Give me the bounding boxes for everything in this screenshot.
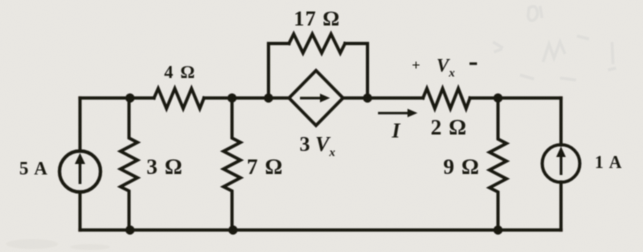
faint bottom-left smudge [6,239,110,250]
resistor R 3 ohm branch [121,98,138,230]
junction node top of 9-ohm [493,93,502,102]
wire right branch lower [559,182,562,230]
junction node bottom of 7-ohm [228,225,237,234]
wire left branch lower [78,192,81,230]
dependent source 3Vx diamond [289,71,343,126]
wire lead from dependent source right [343,96,368,99]
arrow inside dependent source [300,94,330,103]
wire top rail (node C to 2-ohm) [368,96,423,99]
wire 17-ohm loop left riser [269,44,290,99]
junction node top of 7-ohm [227,93,236,102]
junction node bottom of 3-ohm [125,225,134,234]
current arrow I [378,109,418,118]
resistor R 2 ohm [423,89,470,109]
faint scan ghost marks top right [493,6,616,80]
resistor R 17 ohm [289,34,345,53]
junction node dependent source right [363,93,372,102]
resistor R 9 ohm branch [490,98,507,230]
resistor R 7 ohm branch [224,98,241,230]
arrow inside 1A source [556,147,566,176]
current source 5A circle [60,151,101,192]
label minus sign of Vx [470,62,478,65]
wire 17-ohm loop right riser [345,44,368,99]
wire left branch upper [78,98,81,151]
junction node bottom of 9-ohm [493,225,502,234]
resistor R 4 ohm [154,89,204,109]
current source 1A circle [542,145,580,183]
wire top rail left (node A to 4-ohm) [80,96,154,99]
wire right branch upper [559,98,562,145]
junction node top of 3-ohm [125,93,134,102]
wire top rail (2-ohm to right corner) [470,96,561,99]
wire top rail (4-ohm to node B) [204,96,269,99]
wire lead to dependent source left [269,96,290,99]
arrow inside 5A source [75,153,85,184]
wire bottom rail [80,228,561,231]
junction node dependent source left [264,93,273,102]
